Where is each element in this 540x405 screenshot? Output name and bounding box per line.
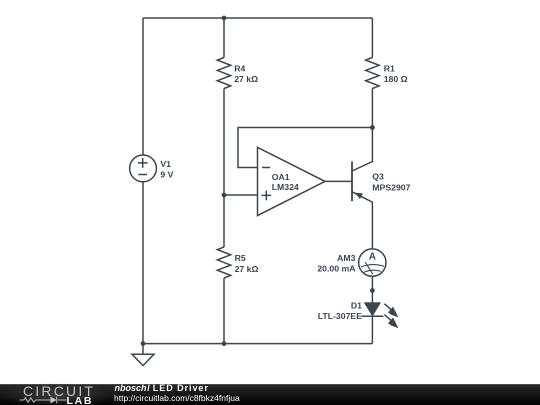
wire Q3 collector <box>352 128 372 172</box>
diode D1 cathode bar <box>362 315 384 317</box>
LED arrow 1 tail <box>384 304 392 311</box>
junction node R5 bottom <box>222 341 227 346</box>
wire R4 to R5 column <box>223 89 225 248</box>
junction node collector / R1 / feedback <box>370 125 375 130</box>
wire D1 bottom <box>371 316 373 343</box>
wire R1 top stub <box>371 18 373 58</box>
svg-text:R5: R5 <box>235 253 246 263</box>
resistor R4 <box>217 58 230 89</box>
transistor Q3 emitter arrow <box>355 193 363 200</box>
svg-text:20.00 mA: 20.00 mA <box>317 263 356 273</box>
op-amp OA1 <box>258 147 326 215</box>
ammeter AM3 <box>359 249 386 276</box>
svg-text:OA1: OA1 <box>272 172 290 182</box>
logo resistor-diode line <box>20 397 67 404</box>
wire top rail <box>143 17 372 19</box>
svg-text:Q3: Q3 <box>372 172 384 182</box>
svg-text:LAB: LAB <box>67 395 94 405</box>
LED arrow 2 tail <box>384 315 392 322</box>
wire AM3 to D1 <box>371 276 373 303</box>
svg-text:LTL-307EE: LTL-307EE <box>318 311 362 321</box>
wire V1 top <box>142 18 144 155</box>
svg-text:D1: D1 <box>351 301 362 311</box>
wire V1 bottom <box>142 182 144 344</box>
wire R5 bottom <box>223 278 225 344</box>
svg-text:nbosch: nbosch <box>115 383 148 393</box>
svg-text:9 V: 9 V <box>160 170 173 180</box>
svg-text:R4: R4 <box>234 63 245 73</box>
junction node AM3 / D1 <box>370 288 375 293</box>
wire R4 top stub <box>223 18 225 58</box>
junction node ground <box>141 341 146 346</box>
transistor Q3 base bar <box>351 161 353 201</box>
svg-text:LED Driver: LED Driver <box>153 383 209 393</box>
wire bottom rail <box>143 343 372 345</box>
wire op-amp output to Q3 base <box>325 180 352 182</box>
svg-text:http://circuitlab.com/c8fbkz4f: http://circuitlab.com/c8fbkz4fnfjua <box>114 393 240 403</box>
LED arrow 2 head <box>388 317 398 328</box>
wire ground stub <box>142 344 144 355</box>
junction node plus input <box>222 193 227 198</box>
svg-text:LM324: LM324 <box>272 182 299 192</box>
resistor R1 <box>366 58 379 89</box>
svg-text:AM3: AM3 <box>337 253 356 263</box>
svg-text:27 kΩ: 27 kΩ <box>234 74 258 84</box>
svg-text:180 Ω: 180 Ω <box>384 74 408 84</box>
wire op-amp plus input <box>224 194 258 196</box>
svg-text:V1: V1 <box>160 159 171 169</box>
resistor R5 <box>217 247 230 278</box>
junction node top rail / R4 <box>222 16 227 21</box>
svg-text:R1: R1 <box>384 63 395 73</box>
ground <box>132 354 154 365</box>
svg-text:MPS2907: MPS2907 <box>372 183 410 193</box>
voltage source V1 <box>130 155 157 182</box>
wire Q3 emitter <box>352 192 372 249</box>
wire feedback to minus input <box>238 128 372 168</box>
diode D1 triangle <box>365 303 380 315</box>
wire R1 bottom stub <box>371 89 373 128</box>
svg-text:A: A <box>369 252 376 263</box>
svg-text:27 kΩ: 27 kΩ <box>235 264 259 274</box>
LED arrow 1 head <box>388 307 398 318</box>
